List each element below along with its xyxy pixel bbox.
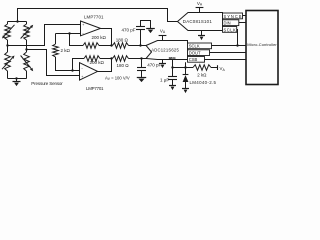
svg-text:AV = 100 V/V: AV = 100 V/V [105,75,130,81]
wire: bridge right branch middle [26,40,28,52]
wire: SYNCB to micro-controller [243,15,247,17]
wire: pull-up to VA supply [211,67,218,69]
ground: ADC [162,60,164,64]
wire: U1 feedback branch [70,34,84,46]
resistor R4: bridge bottom-right strain gauge [24,52,30,71]
ADC U3 ADC121S625 body [146,41,188,60]
node: REF and 1uF junction [171,66,173,68]
wire: U1 output [101,29,112,46]
svg-text:LMP7701: LMP7701 [86,86,104,91]
svg-text:DOUT: DOUT [189,51,201,56]
op-amp U1 LMP7701 (top) [81,21,101,36]
node: top anti-alias cap tap [139,44,141,46]
pin box DOUT (ADC) [188,50,210,56]
ground: LM4040 [182,88,189,90]
resistor: 2 kOhm CSB pull-up [193,65,211,71]
svg-text:200 kΩ: 200 kΩ [90,60,105,65]
wire: bridge right tap to op-amp U2 noninverting input [27,50,80,76]
node: U2 output junction [110,57,112,59]
resistor: 180 Ohm filter (bottom) [113,56,129,62]
svg-text:2 kΩ: 2 kΩ [197,73,207,78]
node: U2 inverting node [71,69,73,71]
svg-text:DIN: DIN [224,21,231,26]
resistor R3: bridge bottom-left strain gauge [5,52,11,71]
svg-text:ADC121S625: ADC121S625 [151,47,179,52]
wire: feedback resistor to output junction (top) [99,45,113,47]
svg-text:VA: VA [160,28,166,34]
ground: DAC [201,31,203,36]
pin box CSB (ADC) [188,57,205,63]
wire: ADC SCLK to micro-controller [212,45,247,47]
svg-text:+: + [82,23,84,27]
svg-text:Micro-Controller: Micro-Controller [247,42,277,47]
resistor R2: bridge top-right strain gauge [24,24,30,40]
svg-text:LM4040-2.5: LM4040-2.5 [190,80,217,85]
node: U1 output junction [110,44,112,46]
capacitor: 470 pF (bottom) [141,59,143,68]
wire: U2 output [98,59,112,72]
svg-text:180 Ω: 180 Ω [117,63,130,68]
svg-text:SCLK: SCLK [189,44,200,49]
svg-text:180 Ω: 180 Ω [116,38,129,43]
pin box SYNCB (DAC) [223,13,243,19]
wire: CSB pin box down to reference rail [185,62,187,67]
resistor: 200 kOhm feedback (top) [83,43,99,49]
node: LM4040 and CSB junction [184,66,186,68]
wire: ADC CSB to micro-controller [205,59,247,61]
wire: DIN to micro-controller [239,22,246,24]
svg-text:VA: VA [197,1,203,7]
resistor: 2 kOhm gain-set [53,44,59,57]
wire: REF pin down to reference rail [172,60,174,68]
wire: bridge bottom bar [8,78,27,80]
ground: top 470 pF [146,28,155,30]
micro-controller block [246,11,278,85]
svg-text:CSB: CSB [189,57,198,62]
ground: bottom 470 pF [137,77,146,79]
svg-text:1 μF: 1 μF [160,77,169,82]
ground: 1 uF [169,85,176,87]
svg-text:200 kΩ: 200 kΩ [92,35,107,40]
svg-text:Pressure Sensor: Pressure Sensor [31,81,63,86]
svg-text:SYNCB: SYNCB [224,14,242,19]
wire: top rail from bridge top to DAC input [18,9,178,22]
svg-text:+: + [81,75,83,79]
svg-text:VA: VA [220,66,226,72]
wire: reference rail [173,67,194,69]
resistor: 200 kOhm feedback (bottom) [84,56,100,62]
wire: bridge left branch upper lead [7,22,9,25]
pin box SCLK (ADC) [188,43,212,49]
resistor R1: bridge top-left strain gauge [5,24,11,40]
node: bridge left mid tap [6,44,8,46]
wire: bridge left branch middle [7,40,9,52]
node: U1 inverting node [68,32,70,34]
wire: U2 feedback branch [73,59,85,71]
wire: gain network vertical (top) [55,34,57,45]
capacitor: 470 pF (top) [140,30,142,46]
wire: ADC DOUT to micro-controller [210,52,247,54]
node: shared SCLK junction [236,44,238,46]
DAC U4 DAC081S101 body [178,13,223,31]
node: bridge right mid tap [25,48,27,50]
wire: bridge right branch upper lead [26,22,28,25]
wire: gain network vertical (bottom) [56,57,80,71]
capacitor: 1 uF reference bypass [172,68,174,77]
wire: DAC SCLK drop to shared SCLK line [236,30,239,46]
node: bridge top excitation node [16,20,18,22]
diode D1 LM4040-2.5 shunt reference [185,68,187,75]
resistor: 180 Ohm filter (top) [113,43,129,49]
supply VA bar at pull-up [217,65,219,70]
wire: top signal into ADC [129,45,147,47]
wire: bridge left branch lower lead [7,71,9,79]
node: bottom anti-alias cap tap [140,57,142,59]
svg-text:2 kΩ: 2 kΩ [61,48,71,53]
svg-text:LMP7701: LMP7701 [84,15,104,20]
wire: bottom signal into ADC [129,58,147,60]
wire: bridge right branch lower lead [26,71,28,79]
pin box DIN (DAC) [223,20,239,26]
svg-text:SCLK: SCLK [224,27,236,32]
svg-text:470 pF: 470 pF [122,27,136,32]
wire: U1 inverting input line [56,33,81,35]
ground: pressure sensor bridge [16,79,18,82]
svg-text:DAC081S101: DAC081S101 [183,19,213,24]
node: bridge bottom [15,77,17,79]
wire: feedback resistor to output junction (bottom) [100,58,113,60]
op-amp U2 LMP7701 (bottom) [80,63,98,80]
pin box SCLK (DAC) [223,27,237,33]
wire: bridge left tap to op-amp U1 noninverting input [8,25,81,46]
wire: bridge top bar [8,21,27,23]
